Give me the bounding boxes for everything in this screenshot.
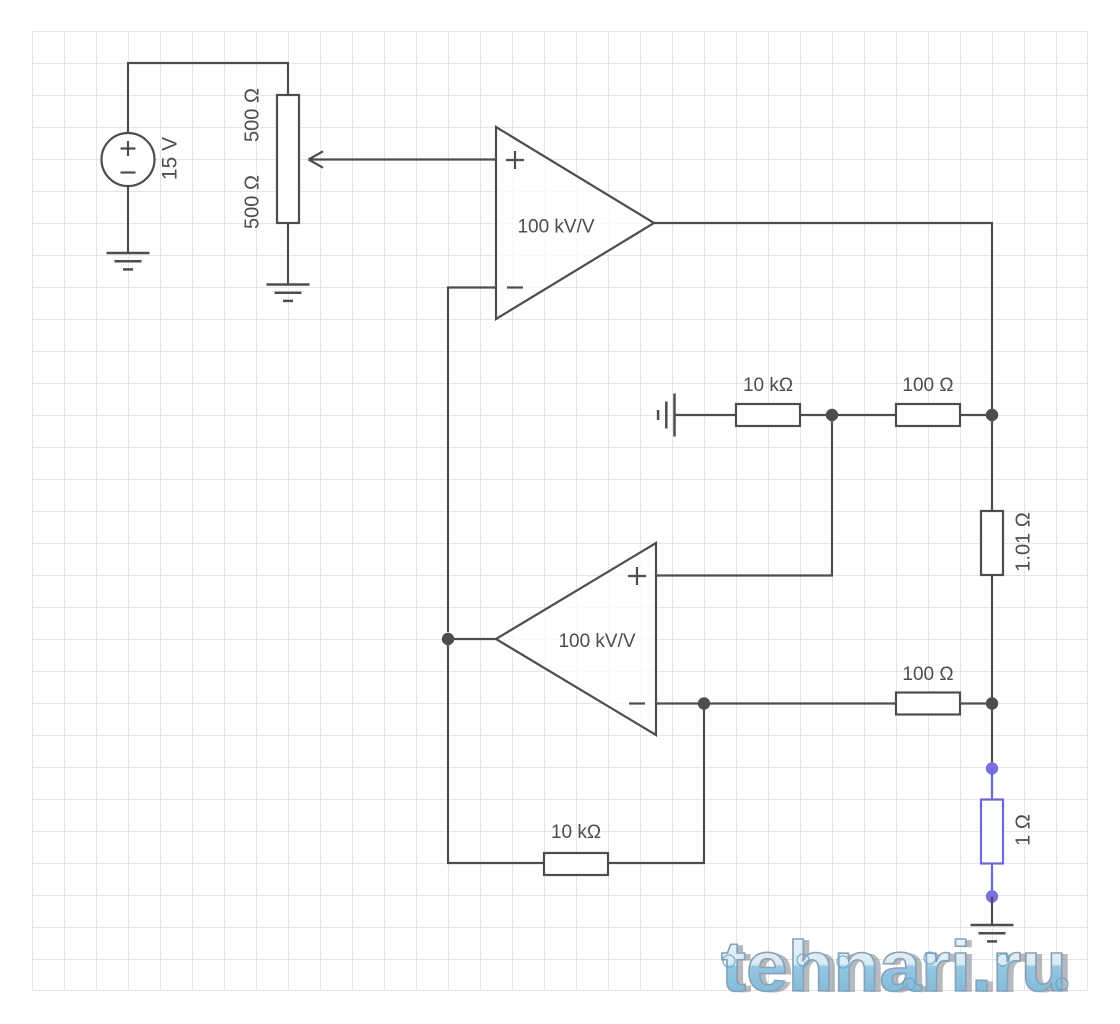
wire V1 to ground (127, 186, 129, 252)
wire junction to R5 (704, 702, 896, 704)
resistor R4 1.01 Ω (981, 511, 1003, 575)
wire feedback down and across through R6 (448, 639, 544, 863)
svg-text:100 kV/V: 100 kV/V (558, 631, 635, 652)
svg-text:500 Ω: 500 Ω (241, 175, 263, 229)
wire R4 down to lower junction (991, 575, 993, 703)
watermark tehnari.ru (721, 928, 1073, 1008)
resistor R2 10 kΩ (736, 404, 800, 426)
svg-text:10 kΩ: 10 kΩ (551, 822, 601, 843)
label 100 Ω (R5) (902, 664, 953, 685)
potentiometer R1 body (277, 95, 299, 223)
label 10 kΩ (R6) (551, 822, 601, 843)
svg-text:100 kV/V: 100 kV/V (517, 217, 594, 238)
label 100 Ω (R3) (902, 375, 953, 396)
label 500 Ω upper (241, 88, 263, 142)
junction node at U2 - input (698, 697, 710, 709)
resistor R5 100 Ω (896, 693, 960, 715)
resistor R3 100 Ω (896, 404, 960, 426)
wire down to selected node (991, 704, 993, 764)
junction node at U2 output (442, 633, 454, 645)
svg-text:1 Ω: 1 Ω (1012, 814, 1034, 846)
wire U2 output to junction (448, 638, 496, 640)
wire R2 to R3 (800, 414, 896, 416)
label 10 kΩ (R2) (743, 375, 793, 396)
svg-text:1.01 Ω: 1.01 Ω (1012, 512, 1034, 571)
resistor R7 1 Ω (selected) (981, 800, 1003, 864)
wire R7 to lower selected node (blue) (991, 864, 993, 897)
wiper arrow from U1 + input (309, 151, 497, 167)
svg-text:tehnari.ru: tehnari.ru (721, 928, 1067, 1007)
junction node right column lower (986, 697, 998, 709)
label 100 kV/V U1 (517, 217, 594, 238)
op-amp U1 (496, 127, 654, 319)
junction node right column upper (986, 409, 998, 421)
svg-text:10 kΩ: 10 kΩ (743, 375, 793, 396)
resistor R6 10 kΩ (544, 853, 608, 875)
svg-text:15 V: 15 V (159, 137, 182, 180)
wire down to R4 (991, 415, 993, 511)
ground under V1 (107, 253, 150, 269)
wire junction down to U2 + input (656, 415, 832, 576)
wire R1 to ground (287, 223, 289, 284)
wire R5 to right column (960, 702, 992, 704)
wire ground to R2 (676, 414, 737, 416)
junction node at R2/R3 (826, 409, 838, 421)
ground left of R2 (658, 394, 674, 437)
ground under R1 (267, 285, 310, 301)
svg-text:100 Ω: 100 Ω (902, 664, 953, 685)
selected terminal node upper (blue) (986, 762, 998, 774)
wire U1 - input feedback (448, 288, 496, 633)
op-amp U2 (496, 543, 656, 735)
voltage source V1 (102, 133, 155, 186)
svg-text:500 Ω: 500 Ω (241, 88, 263, 142)
wire top from V1 to potentiometer (128, 63, 288, 133)
wire U2 - input (656, 702, 704, 704)
wire U1 output to right column (654, 223, 992, 415)
label 1.01 Ω (R4) (1012, 512, 1034, 571)
wire R3 to right column (960, 414, 992, 416)
label 15 V (159, 137, 182, 180)
selected terminal node lower (blue) (986, 890, 998, 902)
ground bottom right (971, 925, 1014, 941)
label 1 Ω (R7) (1012, 814, 1034, 846)
svg-text:100 Ω: 100 Ω (902, 375, 953, 396)
label 500 Ω lower (241, 175, 263, 229)
wire selected node to R7 (blue) (991, 768, 993, 800)
label 100 kV/V U2 (558, 631, 635, 652)
wire R6 to U2 - column (608, 704, 704, 864)
wire to bottom ground (991, 897, 993, 925)
